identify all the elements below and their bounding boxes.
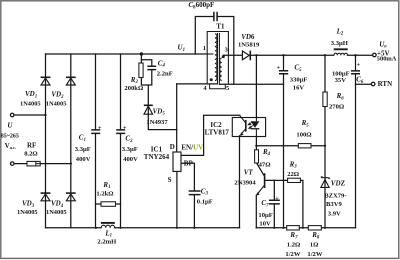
wire VT emitter down [255, 195, 257, 228]
wire C1 column [95, 54, 97, 228]
capacitor C8 [214, 12, 217, 21]
resistor R4 [255, 150, 259, 163]
transistor IC1 TNY264 box [173, 152, 181, 171]
svg-text:C3: C3 [201, 187, 209, 196]
terminal RTN [371, 82, 375, 86]
svg-text:VD2: VD2 [51, 91, 64, 100]
wire VDZ column [324, 107, 326, 228]
opto LED inside IC2 [255, 118, 257, 122]
svg-text:500mA: 500mA [377, 56, 397, 63]
diode VD5 [144, 105, 153, 114]
svg-text:2.2mH: 2.2mH [97, 239, 117, 246]
wire C8 loop [195, 17, 234, 85]
svg-text:C5: C5 [294, 64, 302, 73]
transformer polarity dot primary [210, 78, 213, 81]
svg-text:1Ω: 1Ω [310, 242, 319, 249]
wire AC input line 1 [14, 114, 46, 116]
svg-text:R3: R3 [289, 160, 298, 169]
svg-text:R1: R1 [102, 181, 110, 190]
svg-text:+: + [123, 125, 127, 131]
svg-text:BP: BP [184, 159, 194, 167]
svg-text:LTV817: LTV817 [205, 129, 230, 137]
svg-text:TNY264: TNY264 [144, 153, 170, 161]
resistor R8 [308, 226, 321, 230]
svg-text:3.9V: 3.9V [328, 210, 341, 217]
svg-text:VD1: VD1 [25, 90, 37, 99]
inductor L1 [101, 222, 115, 224]
svg-text:C7: C7 [261, 199, 269, 208]
wire R1 branch [96, 203, 121, 205]
svg-text:1/2W: 1/2W [307, 251, 322, 258]
transistor VT 2N3904 [264, 173, 266, 188]
wire S pin down [176, 171, 178, 227]
svg-text:L2: L2 [336, 27, 344, 36]
svg-text:200kΩ: 200kΩ [124, 85, 143, 92]
wire C7 column [273, 180, 275, 227]
svg-text:4: 4 [203, 85, 207, 92]
svg-text:R8: R8 [311, 231, 320, 240]
op-amp IC2 LTV817 opto box [232, 118, 265, 137]
svg-text:0.1μF: 0.1μF [197, 198, 213, 205]
wire secondary top bus [223, 54, 372, 56]
wire R2/C4 top connector [141, 60, 151, 66]
svg-text:3.3μF: 3.3μF [75, 146, 91, 153]
svg-text:10μF: 10μF [258, 212, 272, 219]
svg-text:RF: RF [27, 142, 36, 150]
svg-text:VD6: VD6 [241, 33, 255, 41]
wire transformer pin4 line [177, 83, 218, 85]
svg-text:Uo: Uo [379, 40, 387, 49]
svg-text:35V: 35V [335, 77, 347, 84]
transformer secondary winding [220, 58, 222, 80]
svg-text:1/2W: 1/2W [285, 251, 300, 258]
inductor L2 [334, 48, 348, 50]
svg-text:C1: C1 [79, 134, 86, 143]
terminal +5V [373, 53, 377, 57]
wire R4 to VT collector [257, 163, 265, 176]
svg-text:400V: 400V [76, 156, 91, 163]
svg-text:+: + [357, 63, 361, 69]
svg-text:B3V9: B3V9 [326, 201, 342, 208]
capacitor C2 [116, 130, 125, 134]
wire R5 line [256, 145, 325, 147]
svg-text:1N4937: 1N4937 [146, 119, 168, 126]
svg-text:3.3μF: 3.3μF [122, 146, 138, 153]
diode VD1 [41, 77, 51, 85]
svg-text:VT: VT [244, 169, 254, 177]
svg-text:1N4005: 1N4005 [46, 209, 67, 216]
transformer primary winding [215, 34, 217, 81]
wire secondary bottom rail [256, 227, 355, 229]
svg-text:U: U [7, 122, 13, 130]
svg-text:R7: R7 [289, 231, 298, 240]
resistor RF [27, 161, 40, 166]
svg-text:1N4005: 1N4005 [46, 100, 67, 107]
capacitor C4 [147, 66, 156, 69]
resistor R6 [323, 92, 327, 107]
svg-text:1.2Ω: 1.2Ω [287, 242, 301, 249]
svg-text:85~265: 85~265 [1, 133, 19, 139]
resistor R2 [139, 63, 143, 78]
svg-text:+: + [98, 125, 102, 131]
wire C6 column [355, 55, 357, 228]
diode VD2 [66, 77, 76, 85]
svg-text:1N4005: 1N4005 [20, 100, 41, 107]
svg-text:5: 5 [226, 85, 229, 92]
svg-text:D: D [170, 143, 175, 151]
resistor R5 [298, 144, 311, 148]
wire C2 column [120, 54, 122, 228]
diode VD4 [66, 193, 76, 201]
wire AC input line 2 through RF [14, 163, 71, 165]
wire VT base line [265, 179, 288, 181]
svg-text:C8600pF: C8600pF [189, 1, 215, 10]
svg-text:C6: C6 [356, 76, 364, 85]
wire pins 4-5 bracket [210, 84, 226, 89]
svg-text:U1: U1 [178, 44, 185, 53]
capacitor C6 [351, 71, 360, 74]
svg-text:RTN: RTN [378, 80, 393, 88]
wire RTN tap [356, 83, 372, 85]
wire R2/C4 bottom connector [141, 70, 151, 114]
svg-text:1: 1 [203, 45, 206, 52]
wire C5 column lower [283, 84, 285, 228]
diode VD3 [41, 193, 51, 201]
wire VD2 column [70, 54, 72, 228]
capacitor C5 [279, 71, 288, 74]
svg-text:EN/UV: EN/UV [181, 144, 203, 152]
wire transformer pin5 line [219, 83, 283, 85]
svg-text:100Ω: 100Ω [296, 132, 311, 139]
svg-text:2N3904: 2N3904 [234, 179, 256, 186]
svg-text:R4: R4 [262, 148, 271, 157]
svg-text:R6: R6 [336, 92, 345, 101]
opto light arrows [248, 122, 253, 129]
svg-text:+: + [277, 65, 281, 71]
zener diode VDZ [321, 176, 330, 187]
wire opto transistor emitter down [239, 136, 241, 228]
wire EN/UV net [181, 115, 240, 155]
svg-text:+: + [275, 196, 279, 202]
svg-text:VD5: VD5 [153, 107, 166, 116]
svg-text:BZX79-: BZX79- [324, 192, 346, 199]
wire R2 top stub [140, 54, 142, 63]
svg-text:C2: C2 [125, 135, 133, 144]
svg-text:3.3μH: 3.3μH [331, 40, 349, 47]
svg-text:1.2kΩ: 1.2kΩ [96, 191, 113, 198]
wire R6 column [324, 55, 326, 92]
svg-text:10V: 10V [259, 220, 271, 227]
wire R3 to R7/R8 junction [300, 180, 303, 227]
terminal input 2 [10, 162, 14, 166]
svg-text:270Ω: 270Ω [329, 104, 344, 111]
svg-text:S: S [168, 176, 172, 184]
wire VD5 to drain jog [148, 114, 176, 129]
svg-text:R2: R2 [130, 76, 139, 85]
svg-text:8.2Ω: 8.2Ω [24, 151, 38, 158]
terminal input 1 [10, 113, 14, 117]
svg-text:R5: R5 [301, 119, 310, 128]
wire drain column [176, 84, 178, 152]
svg-text:VD4: VD4 [51, 200, 64, 209]
capacitor C3 [189, 191, 201, 195]
wire top bus primary [46, 53, 208, 55]
svg-text:T1: T1 [216, 23, 225, 31]
capacitor C1 [91, 130, 100, 134]
wire opto LED cathode to R4 [255, 137, 257, 150]
wire BP to C3 [181, 163, 194, 228]
svg-text:VD3: VD3 [22, 200, 35, 209]
svg-text:47Ω: 47Ω [259, 162, 271, 169]
diode VD6 [242, 51, 249, 60]
svg-text:1N4005: 1N4005 [17, 209, 38, 216]
svg-text:2.2nF: 2.2nF [157, 71, 173, 78]
resistor R1 [101, 202, 116, 207]
svg-text:C4: C4 [158, 59, 166, 68]
node junction dots [44, 52, 356, 229]
svg-text:3: 3 [225, 47, 228, 54]
wire C5 column upper [283, 55, 285, 84]
svg-text:L1: L1 [104, 229, 112, 238]
svg-text:VDZ: VDZ [331, 180, 346, 188]
transformer core lines [218, 33, 220, 84]
wire bottom rail primary [46, 227, 240, 229]
wire opto LED anode column [255, 55, 257, 117]
capacitor C7 [269, 200, 280, 204]
svg-text:22Ω: 22Ω [287, 171, 299, 178]
svg-text:330μF: 330μF [290, 76, 308, 83]
transformer T1 box [207, 32, 228, 85]
wire pin1 entry [207, 53, 213, 55]
resistor R7 [287, 226, 300, 230]
svg-text:Va.c.: Va.c. [5, 142, 17, 150]
resistor R3 [288, 178, 301, 182]
svg-text:400V: 400V [123, 156, 138, 163]
transformer polarity dot secondary / node pin3 [222, 55, 225, 58]
svg-text:1N5819: 1N5819 [238, 42, 260, 49]
svg-text:16V: 16V [293, 85, 305, 92]
wire VD1 column [45, 54, 47, 228]
opto phototransistor [245, 120, 247, 132]
